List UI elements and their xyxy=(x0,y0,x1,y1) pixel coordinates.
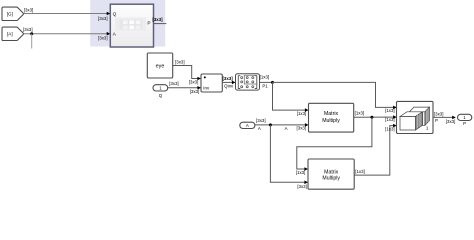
label [3x3] at product output (bold) xyxy=(222,76,233,81)
label [3x3] at MM2 bottom port xyxy=(297,184,307,189)
svg-text:Q: Q xyxy=(159,93,163,98)
svg-text:P: P xyxy=(147,21,150,27)
svg-text:[3x3]: [3x3] xyxy=(189,80,199,85)
wire concatenate to outport P xyxy=(433,116,456,120)
label [1x3] at MM1 output xyxy=(355,110,365,115)
svg-text:[3x3]: [3x3] xyxy=(446,119,456,124)
signal name Qinv xyxy=(224,83,234,88)
label [3x3] at product bottom port xyxy=(190,89,200,94)
label [3x3] at product top port xyxy=(189,80,199,85)
svg-text:Matrix: Matrix xyxy=(324,111,339,117)
from tag [A] xyxy=(2,27,23,40)
svg-text:[1x3]: [1x3] xyxy=(355,169,365,174)
junction A xyxy=(269,123,272,126)
svg-text:Multiply: Multiply xyxy=(322,118,340,124)
wire G to subsystem port Q xyxy=(24,12,111,16)
junction on A wire xyxy=(30,32,33,35)
matrix concatenate block xyxy=(397,101,434,133)
svg-text:[3x3]: [3x3] xyxy=(98,35,108,40)
selection highlight area xyxy=(90,0,165,47)
label [1x3] at concatenate input 1 xyxy=(385,108,395,113)
eye block xyxy=(147,53,172,78)
svg-text:A: A xyxy=(285,126,288,131)
wire A to subsystem port A xyxy=(24,32,111,36)
name label P below outport xyxy=(463,121,466,126)
matrix multiply block MM1 xyxy=(309,103,354,132)
svg-text:[3x3]: [3x3] xyxy=(256,118,266,123)
svg-text:[3x3]: [3x3] xyxy=(222,76,233,81)
cube 2 (rear) xyxy=(410,107,430,112)
submatrix block xyxy=(236,74,260,90)
svg-text:[1x3]: [1x3] xyxy=(355,110,365,115)
wire MM1 output to concatenate input 2 xyxy=(354,115,397,119)
wire A to MM2 bottom input xyxy=(270,125,308,184)
svg-text:[3x3]: [3x3] xyxy=(23,27,33,32)
wire MM2 output to concatenate input 3 xyxy=(354,124,396,175)
label [1x3] at MM2 output xyxy=(355,169,365,174)
name label Q xyxy=(159,93,163,98)
from tag [G] xyxy=(2,7,23,20)
label [1x3] at concatenate input 2 xyxy=(385,117,395,122)
junction MM1 output xyxy=(370,116,373,119)
svg-text:[1x3]: [1x3] xyxy=(385,126,395,131)
dangling wire from A junction xyxy=(31,34,33,49)
signal name P xyxy=(435,118,438,123)
svg-text:A: A xyxy=(258,126,261,131)
wire constant Q to product bottom input xyxy=(168,86,201,90)
label [3x3] at subsystem port Q xyxy=(98,16,108,21)
label [3x3] on eye wire xyxy=(175,60,185,65)
label [3x3] on G wire xyxy=(24,7,34,12)
wire A oval to MM1 bottom input xyxy=(255,123,309,127)
svg-text:[3x3]: [3x3] xyxy=(297,126,307,131)
wire MM1 output to MM2 top input xyxy=(297,117,372,171)
label [3x3] on constant wire xyxy=(169,81,179,86)
label [3x3] on P stub (bold) xyxy=(152,17,163,22)
svg-text:eye: eye xyxy=(156,64,165,70)
product block Inv xyxy=(201,74,222,92)
constant Q xyxy=(153,85,168,91)
svg-text:[1x3]: [1x3] xyxy=(297,111,307,116)
label [3x3] at subsystem port A xyxy=(98,35,108,40)
wire product to submatrix xyxy=(222,81,235,85)
label [1x3] at concatenate input 3 xyxy=(385,126,395,131)
svg-text:[3x3]: [3x3] xyxy=(297,184,307,189)
svg-text:[G]: [G] xyxy=(7,12,13,17)
svg-text:P1: P1 xyxy=(262,83,268,88)
svg-text:[3x3]: [3x3] xyxy=(175,60,185,65)
label [1x3] at MM2 top port xyxy=(296,170,306,175)
svg-text:Inv: Inv xyxy=(203,86,210,91)
svg-text:[3x3]: [3x3] xyxy=(152,17,163,22)
svg-text:[1x3]: [1x3] xyxy=(260,74,270,79)
matrix multiply block MM2 xyxy=(308,159,354,189)
svg-text:[A]: [A] xyxy=(7,32,13,37)
label [1x3] at submatrix output xyxy=(260,74,270,79)
svg-text:[3x3]: [3x3] xyxy=(434,112,444,117)
svg-text:Matrix: Matrix xyxy=(324,169,339,175)
svg-text:Multiply: Multiply xyxy=(322,176,340,182)
label [1x3] at MM1 top port xyxy=(297,111,307,116)
wire P1 to concatenate input 1 xyxy=(273,82,397,109)
outport P xyxy=(458,114,472,120)
junction P1 xyxy=(271,81,274,84)
label [3x3] at outport xyxy=(446,119,456,124)
label [3x3] at MM1 bottom port xyxy=(297,126,307,131)
svg-text:[1x3]: [1x3] xyxy=(385,108,395,113)
svg-text:[3x3]: [3x3] xyxy=(24,7,34,12)
signal name P1 xyxy=(262,83,268,88)
wire P1 to matrix multiply 1 top input xyxy=(273,82,309,111)
wire submatrix output P1 xyxy=(260,81,273,83)
svg-text:[1x3]: [1x3] xyxy=(385,117,395,122)
from tag A oval xyxy=(240,122,255,128)
svg-text:P: P xyxy=(463,121,466,126)
svg-text:Qinv: Qinv xyxy=(224,83,234,88)
svg-text:[3x3]: [3x3] xyxy=(190,89,200,94)
cube 1 (front) xyxy=(400,112,422,117)
wire eye to product top input xyxy=(173,66,201,81)
subsystem block xyxy=(110,4,153,47)
svg-text:[3x3]: [3x3] xyxy=(98,16,108,21)
signal name A xyxy=(258,126,261,131)
svg-text:[3x3]: [3x3] xyxy=(169,81,179,86)
label [3x3] on A wire xyxy=(23,27,33,32)
signal name A (second) xyxy=(285,126,288,131)
svg-text:A: A xyxy=(246,123,249,128)
svg-text:[1x3]: [1x3] xyxy=(296,170,306,175)
svg-text:Q: Q xyxy=(113,11,117,17)
label [3x3] at A output xyxy=(256,118,266,123)
label [3x3] at concatenate output xyxy=(434,112,444,117)
svg-text:P: P xyxy=(435,118,438,123)
wire stub from subsystem port P xyxy=(154,23,167,25)
